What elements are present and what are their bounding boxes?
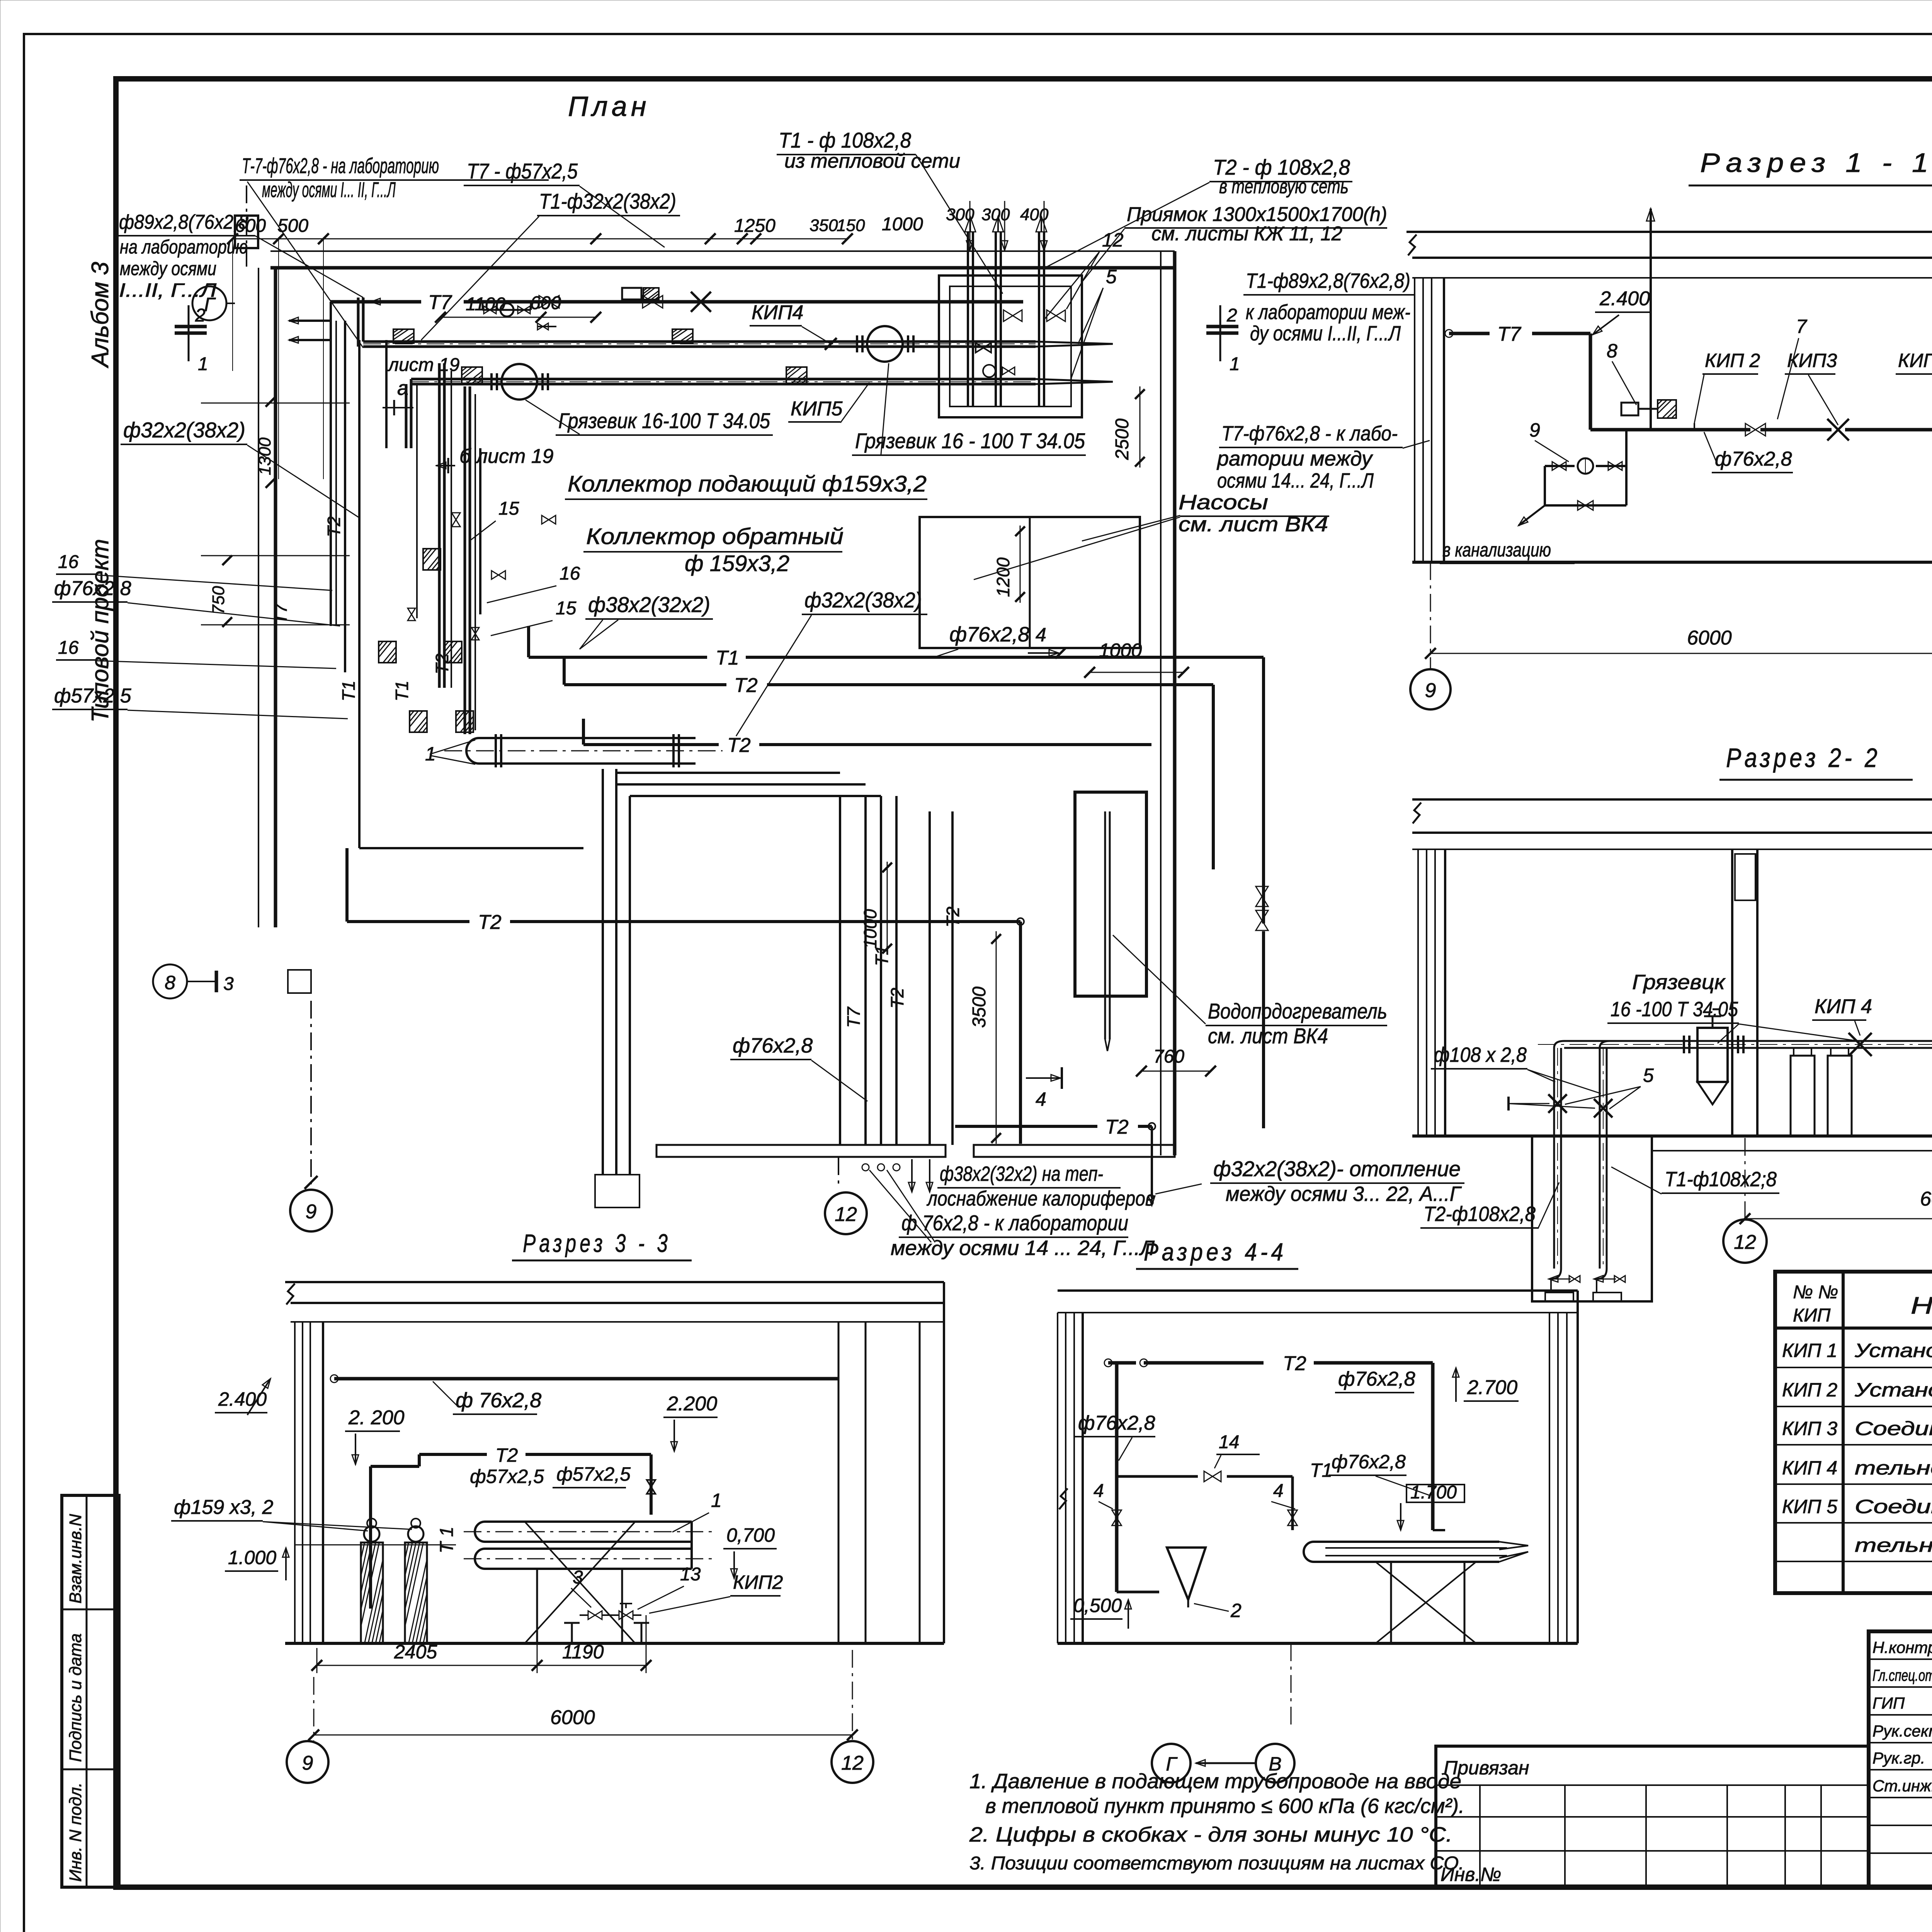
svg-text:ду осями I...II, Г...Л: ду осями I...II, Г...Л	[1250, 322, 1401, 345]
return run centerline	[411, 381, 1036, 382]
svg-text:1190: 1190	[562, 1641, 604, 1663]
T7 bypass with gauge	[483, 309, 531, 311]
svg-text:Гл.спец.отд.: Гл.спец.отд.	[1872, 1666, 1932, 1684]
svg-text:между осями 3... 22, А...Г: между осями 3... 22, А...Г	[1226, 1182, 1462, 1206]
X joints on risers s2	[1548, 1094, 1567, 1113]
svg-text:4: 4	[1036, 624, 1046, 646]
svg-text:Установка термометра: Установка термометра	[1854, 1340, 1932, 1361]
svg-text:14: 14	[1219, 1432, 1239, 1452]
svg-text:ф 76х2,8: ф 76х2,8	[456, 1389, 541, 1412]
svg-text:ф32х2(38х2): ф32х2(38х2)	[123, 418, 245, 442]
main pipe s2	[1564, 1040, 1932, 1042]
section 1-1 left wall	[1414, 278, 1415, 562]
bottom descend bundle	[839, 796, 841, 1145]
svg-text:ф76х2,8: ф76х2,8	[1715, 448, 1792, 470]
section 4-4 floor	[1058, 1642, 1578, 1645]
svg-text:4: 4	[1036, 1088, 1046, 1110]
priyamok pit rectangle plan	[939, 276, 1082, 417]
section 3-3 floor	[285, 1642, 944, 1645]
section 2-2 floor	[1412, 1134, 1932, 1138]
svg-text:между осями I... II, Г...Л: между осями I... II, Г...Л	[262, 177, 396, 202]
svg-text:ф38х2(32х2): ф38х2(32х2)	[588, 592, 710, 617]
svg-text:Т2: Т2	[324, 516, 344, 537]
svg-text:План: План	[568, 91, 650, 122]
svg-text:2.400: 2.400	[1599, 287, 1650, 310]
water heater plan	[1075, 792, 1146, 996]
svg-text:Т 1: Т 1	[437, 1527, 457, 1553]
section 1-1 axis dim 6000	[1430, 562, 1431, 668]
axis 8 marker	[153, 964, 187, 998]
svg-text:Насосы: Насосы	[1179, 491, 1268, 514]
svg-text:Т7: Т7	[270, 603, 291, 624]
svg-text:Т2: Т2	[734, 674, 758, 697]
svg-text:из тепловой сети: из тепловой сети	[784, 150, 960, 172]
dim chain top 600 500	[233, 238, 279, 240]
svg-text:КИП2: КИП2	[733, 1571, 783, 1593]
supply main double pipe run	[363, 340, 1036, 343]
pump group squares	[920, 517, 1140, 648]
svg-text:2: 2	[1226, 305, 1237, 326]
section 3-3 right wall	[838, 1322, 840, 1643]
section 3-3 left wall	[294, 1322, 296, 1643]
svg-text:Установка манометра: Установка манометра	[1854, 1379, 1932, 1401]
svg-text:1250: 1250	[734, 216, 776, 236]
pipe T7 plan horizontal	[331, 300, 421, 304]
svg-text:12: 12	[1102, 229, 1124, 251]
svg-text:б лист 19: б лист 19	[459, 445, 554, 468]
svg-text:Ст.инж.: Ст.инж.	[1872, 1777, 1932, 1795]
axis Г В circles s4	[1291, 1643, 1292, 1727]
svg-text:2500: 2500	[1112, 418, 1133, 460]
left pipe bundle verticals	[344, 321, 346, 672]
dim chain 1100 600	[440, 317, 541, 318]
svg-text:3: 3	[223, 974, 234, 994]
svg-text:2: 2	[195, 305, 206, 326]
svg-text:лист 19: лист 19	[387, 355, 459, 375]
pit riser pipes T1 T2 s2	[1553, 1048, 1555, 1269]
svg-text:Т1: Т1	[1310, 1459, 1332, 1481]
svg-text:Разрез 2- 2: Разрез 2- 2	[1726, 743, 1881, 773]
svg-text:2.400: 2.400	[218, 1388, 267, 1410]
heat exchanger s3	[475, 1522, 692, 1542]
left margin stamp column	[62, 1495, 119, 1887]
bundle small valves	[452, 513, 460, 527]
svg-text:5: 5	[1643, 1065, 1654, 1086]
svg-text:Т7-ф76х2,8 - к лабо-: Т7-ф76х2,8 - к лабо-	[1221, 422, 1398, 445]
svg-text:Водоподогреватель: Водоподогреватель	[1208, 999, 1387, 1023]
svg-text:12: 12	[835, 1203, 857, 1226]
svg-text:а: а	[397, 377, 408, 400]
svg-text:350: 350	[810, 216, 838, 235]
svg-text:Т2: Т2	[1283, 1352, 1306, 1375]
svg-text:КИП 5: КИП 5	[1782, 1496, 1837, 1517]
svg-text:Н.контр.: Н.контр.	[1872, 1638, 1932, 1656]
svg-text:КИП3: КИП3	[1787, 350, 1837, 371]
svg-text:5: 5	[1106, 266, 1117, 287]
svg-text:в тепловой пункт принято ≤ 6: в тепловой пункт принято ≤ 600 кПа (6 кг…	[985, 1794, 1464, 1818]
svg-text:1000: 1000	[860, 909, 880, 949]
heat exchanger s4	[1304, 1542, 1499, 1562]
valves s3	[588, 1611, 602, 1619]
svg-text:150: 150	[837, 216, 865, 235]
svg-text:ф38х2(32х2) на теп-: ф38х2(32х2) на теп-	[940, 1162, 1103, 1185]
svg-text:ф159 х3, 2: ф159 х3, 2	[174, 1496, 273, 1519]
svg-text:Т2: Т2	[727, 734, 751, 757]
svg-text:см. листы КЖ 11, 12: см. листы КЖ 11, 12	[1151, 223, 1342, 245]
section 4-4 left wall	[1057, 1313, 1058, 1643]
svg-text:ф76х2,8: ф76х2,8	[949, 623, 1029, 646]
svg-text:к лаборатории меж-: к лаборатории меж-	[1246, 301, 1410, 324]
svg-text:Т7 - ф57х2,5: Т7 - ф57х2,5	[467, 159, 578, 183]
pit risers T1 T2 vertical	[967, 232, 969, 406]
svg-text:6000: 6000	[1920, 1188, 1932, 1210]
svg-text:16: 16	[58, 638, 79, 658]
svg-text:13: 13	[680, 1564, 701, 1585]
svg-text:см. лист ВК4: см. лист ВК4	[1179, 513, 1328, 536]
pedestals s2	[1791, 1056, 1815, 1136]
svg-text:Коллектор подающий ф159х3,2: Коллектор подающий ф159х3,2	[568, 471, 927, 497]
svg-text:ф76х2,8: ф76х2,8	[1338, 1368, 1415, 1390]
section 2-2 middle column	[1731, 849, 1733, 1136]
hatched supports run1	[393, 329, 414, 343]
svg-text:Рук.гр.: Рук.гр.	[1872, 1749, 1925, 1767]
valves on section1-1 pipe	[1745, 423, 1765, 436]
black pad	[595, 1175, 639, 1207]
svg-text:между осями 14 ... 24, Г...Л: между осями 14 ... 24, Г...Л	[891, 1236, 1155, 1260]
section mark 2-1 left	[188, 305, 190, 361]
pipe T2 s4	[1104, 1359, 1112, 1367]
extra bundle lines	[335, 321, 337, 626]
svg-text:между осями: между осями	[120, 258, 216, 279]
svg-text:1: 1	[711, 1490, 722, 1511]
svg-text:16: 16	[58, 552, 79, 572]
svg-text:Альбом 3: Альбом 3	[87, 262, 114, 369]
svg-text:Т1: Т1	[392, 680, 412, 701]
svg-text:1.000: 1.000	[228, 1547, 276, 1568]
bypass 14 s4	[1117, 1475, 1198, 1478]
axis 9 line and circle	[310, 1001, 312, 1184]
svg-text:ф 159х3,2: ф 159х3,2	[685, 551, 789, 576]
dirt trap on supply run	[867, 326, 903, 362]
dim chain 1250 350 150 1000	[323, 238, 847, 240]
T2 loop s3	[369, 1466, 372, 1609]
return main double pipe run	[411, 378, 1036, 381]
svg-text:ф57х2,5: ф57х2,5	[556, 1463, 631, 1485]
svg-text:1: 1	[1230, 354, 1240, 374]
svg-text:КИП5: КИП5	[791, 398, 843, 420]
section 4-4 right wall	[1549, 1313, 1550, 1643]
svg-text:Грязевик 16 - 100 Т 34.05: Грязевик 16 - 100 Т 34.05	[855, 429, 1085, 453]
KIP specification table frame	[1775, 1272, 1932, 1593]
svg-text:1. Давление в подающем труб: 1. Давление в подающем трубопроводе на в…	[969, 1770, 1461, 1793]
supports s3	[571, 1623, 573, 1643]
svg-text:1: 1	[198, 354, 208, 374]
long pipe T1	[529, 656, 707, 659]
section 2-2 pit below floor	[1532, 1136, 1652, 1301]
black square axis8	[288, 970, 311, 993]
pipe f76 s3	[330, 1375, 338, 1383]
svg-text:15: 15	[556, 598, 577, 619]
svg-text:I...II, Г...Л: I...II, Г...Л	[119, 279, 217, 301]
svg-text:ф57х2,5: ф57х2,5	[54, 685, 132, 707]
svg-text:Т2: Т2	[887, 988, 907, 1009]
svg-text:Т7: Т7	[1497, 323, 1522, 345]
svg-text:лоснабжение калориферов: лоснабжение калориферов	[926, 1187, 1155, 1210]
svg-text:ф32х2(38х2): ф32х2(38х2)	[804, 588, 922, 612]
svg-text:КИП 1: КИП 1	[1898, 350, 1932, 371]
right T1 drop and valves	[1262, 657, 1265, 923]
KIP4 X symbol s2	[1849, 1033, 1872, 1056]
svg-text:Разрез 4-4: Разрез 4-4	[1144, 1238, 1287, 1266]
svg-text:2405: 2405	[394, 1641, 437, 1663]
svg-text:на лабораторию: на лабораторию	[120, 236, 248, 258]
svg-text:Т2-ф108х2,8: Т2-ф108х2,8	[1423, 1202, 1536, 1226]
svg-text:Т2: Т2	[943, 906, 963, 927]
svg-text:7: 7	[1796, 316, 1808, 337]
svg-text:тельной диафрагмы 50-06 01: тельной диафрагмы 50-06 01	[1855, 1534, 1932, 1556]
sleeve rects on T7	[622, 288, 641, 299]
svg-text:Рук.сект.: Рук.сект.	[1872, 1722, 1932, 1740]
svg-text:ф89х2,8(76х2,8: ф89х2,8(76х2,8	[119, 211, 248, 233]
pit internals valves	[1003, 310, 1022, 321]
svg-text:КИП 3: КИП 3	[1782, 1418, 1837, 1439]
svg-text:ф 76х2,8 - к лаборатории: ф 76х2,8 - к лаборатории	[901, 1211, 1128, 1235]
svg-text:Коллектор обратный: Коллектор обратный	[586, 524, 844, 549]
svg-text:6000: 6000	[550, 1706, 595, 1729]
svg-text:ф76х2,8: ф76х2,8	[733, 1034, 813, 1057]
svg-text:2: 2	[1230, 1600, 1242, 1621]
svg-text:ф76х2,8: ф76х2,8	[1078, 1412, 1155, 1434]
pipe tapers into pit	[1036, 342, 1113, 347]
svg-text:ф76х2,8: ф76х2,8	[54, 577, 131, 600]
svg-text:Т1: Т1	[716, 647, 739, 669]
svg-text:Т1-ф89х2,8(76х2,8): Т1-ф89х2,8(76х2,8)	[1246, 269, 1410, 293]
axis Г circle	[192, 286, 226, 320]
exchanger bracing s3	[525, 1522, 635, 1643]
left down bundle to pad	[602, 769, 604, 1175]
svg-text:Т2: Т2	[478, 911, 502, 934]
svg-text:ф108 х 2,8: ф108 х 2,8	[1434, 1043, 1527, 1066]
svg-text:750: 750	[209, 586, 228, 614]
svg-text:Соединение фланцевое для из: Соединение фланцевое для измери-	[1855, 1418, 1932, 1439]
axis circle 12 s2	[1723, 1219, 1767, 1263]
title block left extension (Привязан)	[1436, 1746, 1869, 1887]
section 4-4 ceiling	[1058, 1289, 1578, 1292]
svg-text:КИП 2: КИП 2	[1705, 350, 1760, 371]
axis 12 line and circle	[838, 1157, 839, 1187]
svg-text:Т2: Т2	[495, 1444, 518, 1466]
section 3-3 ceiling	[285, 1281, 944, 1283]
leaders to pumps	[1082, 515, 1180, 541]
svg-text:Т2: Т2	[432, 653, 452, 674]
label 4 arrow lower	[1026, 1077, 1061, 1079]
svg-text:0,500: 0,500	[1073, 1595, 1122, 1616]
svg-text:16: 16	[560, 563, 580, 584]
svg-text:Т7: Т7	[428, 291, 452, 314]
svg-text:Т1 - ф 108х2,8: Т1 - ф 108х2,8	[779, 128, 911, 152]
long pipe T2b	[583, 743, 719, 746]
plan corner column box	[235, 216, 258, 248]
svg-text:Разрез 1 - 1: Разрез 1 - 1	[1700, 148, 1932, 178]
svg-text:в тепловую сеть: в тепловую сеть	[1219, 175, 1349, 198]
svg-text:15: 15	[498, 498, 519, 519]
dirt trap left s2	[1697, 1028, 1728, 1082]
svg-text:2.700: 2.700	[1467, 1376, 1517, 1399]
portal sleeves bottom wall	[656, 1145, 946, 1157]
svg-text:КИП 1: КИП 1	[1782, 1340, 1837, 1361]
svg-text:Т1: Т1	[338, 680, 359, 701]
svg-text:2.200: 2.200	[667, 1393, 717, 1415]
svg-text:Т-7-ф76х2,8 - на лабораторию: Т-7-ф76х2,8 - на лабораторию	[242, 153, 439, 178]
section 2-2 dim 6000	[1745, 1138, 1746, 1221]
svg-text:КИП: КИП	[1793, 1305, 1831, 1326]
svg-text:Т1-ф108х2;8: Т1-ф108х2;8	[1665, 1168, 1777, 1191]
svg-text:Т7: Т7	[844, 1007, 864, 1028]
svg-text:Наименование: Наименование	[1911, 1293, 1932, 1319]
svg-text:ратории между: ратории между	[1216, 447, 1373, 470]
title block signature grid	[1869, 1658, 1932, 1660]
elevator cone s4	[1167, 1548, 1206, 1600]
svg-text:1000: 1000	[882, 214, 923, 235]
title block frame	[1869, 1631, 1932, 1887]
svg-text:9: 9	[1425, 679, 1436, 702]
plan heat exchanger	[466, 738, 696, 764]
svg-text:Инв. N подл.: Инв. N подл.	[66, 1782, 85, 1882]
svg-text:2. 200: 2. 200	[348, 1406, 405, 1429]
riser feet and drain valves s2	[1551, 1269, 1561, 1279]
svg-text:Соединение фланцевое для и: Соединение фланцевое для измери-	[1855, 1496, 1932, 1517]
svg-text:0,700: 0,700	[726, 1524, 775, 1546]
svg-text:в канализацию: в канализацию	[1442, 539, 1551, 561]
section 1-1 vent arrow	[1650, 209, 1652, 430]
exchanger support s4	[1376, 1562, 1476, 1643]
svg-text:Взам.инв.N: Взам.инв.N	[66, 1514, 85, 1604]
svg-text:3. Позиции соответствуют поз: 3. Позиции соответствуют позициям на лис…	[969, 1853, 1464, 1874]
bundle fittings hatched	[423, 549, 440, 570]
svg-text:Грязевцк: Грязевцк	[1632, 971, 1726, 994]
section 2-2 ceiling	[1412, 798, 1932, 801]
risers s3	[361, 1543, 383, 1643]
section 3-3 far wall	[919, 1322, 921, 1643]
svg-text:8: 8	[1607, 340, 1617, 362]
svg-text:Разрез 3 - 3: Разрез 3 - 3	[523, 1229, 671, 1257]
svg-text:ф32х2(38х2)- отопление: ф32х2(38х2)- отопление	[1213, 1156, 1461, 1181]
axis circle 9 s1	[1410, 669, 1451, 709]
svg-text:Т2: Т2	[1105, 1116, 1129, 1138]
svg-text:№ №: № №	[1793, 1282, 1838, 1303]
svg-text:9: 9	[306, 1201, 317, 1223]
svg-text:300: 300	[981, 205, 1010, 224]
svg-text:2. Цифры в скобках - для з: 2. Цифры в скобках - для зоны минус 10 °…	[969, 1823, 1452, 1846]
svg-text:4: 4	[1273, 1481, 1284, 1501]
svg-text:9: 9	[302, 1752, 313, 1774]
svg-text:ф76х2,8: ф76х2,8	[1332, 1451, 1406, 1473]
dirt trap on return run	[502, 364, 537, 400]
plan right wall	[1160, 251, 1162, 1155]
valves on T7	[539, 296, 559, 308]
section 1-1 ceiling	[1406, 231, 1932, 233]
svg-text:ГИП: ГИП	[1872, 1694, 1905, 1712]
svg-text:500: 500	[277, 216, 308, 236]
svg-text:3500: 3500	[969, 986, 990, 1028]
section 1-1 floor	[1412, 561, 1932, 564]
plan exit arrows left	[289, 320, 331, 322]
svg-text:КИП4: КИП4	[752, 301, 803, 324]
svg-text:Грязевик 16-100 Т 34.05: Грязевик 16-100 Т 34.05	[558, 408, 770, 433]
svg-text:1000: 1000	[1099, 639, 1142, 661]
dim 6000 s3	[314, 1735, 852, 1736]
svg-text:осями 14... 24, Г...Л: осями 14... 24, Г...Л	[1217, 469, 1374, 492]
section mark 2-1 right	[1219, 305, 1221, 361]
svg-text:3: 3	[573, 1567, 583, 1588]
svg-text:Подпись и дата: Подпись и дата	[66, 1633, 85, 1762]
svg-text:1200: 1200	[993, 557, 1013, 597]
svg-text:КИП 4: КИП 4	[1815, 995, 1872, 1018]
svg-text:12: 12	[841, 1752, 864, 1774]
dims 2405 1190 s3	[317, 1665, 537, 1666]
svg-text:760: 760	[1153, 1046, 1184, 1067]
plan left wall	[258, 268, 259, 927]
svg-text:см. лист ВК4: см. лист ВК4	[1208, 1024, 1328, 1048]
svg-text:Т1-ф32х2(38х2): Т1-ф32х2(38х2)	[539, 189, 676, 213]
pipe T2 bottom right	[955, 1125, 1097, 1128]
svg-text:КИП 4: КИП 4	[1782, 1457, 1837, 1479]
dots and arrows under portal	[862, 1164, 869, 1171]
plan top wall	[270, 250, 1175, 252]
svg-text:ф57х2,5: ф57х2,5	[470, 1466, 544, 1487]
section 2-2 left wall	[1417, 849, 1419, 1136]
axis circle 12 s3	[832, 1741, 873, 1783]
svg-text:КИП 2: КИП 2	[1782, 1379, 1837, 1401]
pipe T2 bottom long	[347, 920, 469, 923]
svg-text:тельной диафрагмы 100-06 0: тельной диафрагмы 100-06 04	[1855, 1457, 1932, 1479]
long pipe T2a	[564, 683, 726, 686]
svg-text:6000: 6000	[1687, 627, 1732, 649]
svg-text:12: 12	[1734, 1231, 1756, 1253]
hatched supports run2	[462, 367, 482, 383]
axis circle 9 s3	[287, 1741, 328, 1783]
svg-text:16 -100 Т 34.05: 16 -100 Т 34.05	[1611, 998, 1738, 1021]
svg-text:4: 4	[1094, 1481, 1104, 1501]
supply run centerline	[363, 344, 1036, 344]
svg-text:8: 8	[165, 972, 175, 993]
pipe T7 section 1-1	[1445, 330, 1453, 337]
svg-text:9: 9	[1529, 419, 1540, 441]
